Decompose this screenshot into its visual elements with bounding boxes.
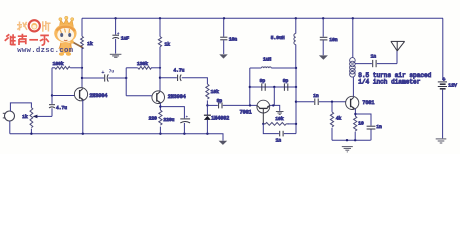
inductor L 8.5 turns tank coil xyxy=(352,18,354,57)
node rail diode xyxy=(206,133,208,135)
svg-text:1/4 inch diameter: 1/4 inch diameter xyxy=(358,79,421,86)
svg-text:5.9uH: 5.9uH xyxy=(271,35,285,41)
watermark mascot body xyxy=(60,43,72,54)
wire top supply rail xyxy=(82,17,443,19)
wire cap to mic resistor with arrow xyxy=(37,115,52,117)
wire mic top to 1k xyxy=(10,103,31,111)
battery B1 12V xyxy=(438,82,447,89)
resistor R 1k Q1 collector load xyxy=(81,18,83,36)
node Q2 collector output tap xyxy=(159,77,161,79)
wire Q1 emitter xyxy=(82,100,84,134)
svg-text:220: 220 xyxy=(149,116,158,122)
svg-text:10n: 10n xyxy=(329,37,338,43)
node Q1 base xyxy=(51,94,53,96)
watermark ring seal xyxy=(29,20,40,31)
watermark mascot crown xyxy=(60,19,74,27)
resistor R 1k Q2 collector load xyxy=(159,18,161,36)
wire Q2 collector column xyxy=(159,47,161,92)
capacitor C 4.7u mic coupling xyxy=(51,96,53,104)
svg-text:+: + xyxy=(186,116,189,120)
svg-text:+: + xyxy=(117,32,120,37)
node rail 220 xyxy=(159,133,161,135)
node Q4 base 4k xyxy=(331,101,333,103)
capacitor C 1n emitter bypass xyxy=(355,114,371,126)
wire Q4 collector up to coil xyxy=(352,77,354,97)
node rail 1k xyxy=(30,133,32,135)
node right rail ground xyxy=(346,139,348,141)
junction top rail at 5.9uH xyxy=(295,17,297,19)
node interstage split xyxy=(125,77,127,79)
node 9p midpoint xyxy=(273,86,275,88)
ground under 1uF xyxy=(110,54,122,57)
node 10k2 right xyxy=(295,123,297,125)
watermark logo dzsc xyxy=(5,16,83,56)
transistor Q4 7601 buffer xyxy=(346,96,359,109)
svg-text:220u: 220u xyxy=(163,117,174,123)
svg-text:2N3904: 2N3904 xyxy=(168,94,186,100)
svg-text:9p: 9p xyxy=(260,78,266,84)
wire battery negative down xyxy=(442,90,444,139)
ground under 10n xyxy=(219,54,227,58)
node Q2 collector 130k xyxy=(159,67,161,69)
svg-text:7601: 7601 xyxy=(362,100,374,106)
junction top rail at 10n second xyxy=(322,17,324,19)
watermark mascot feet xyxy=(59,52,64,56)
capacitor C 1uF bypass xyxy=(115,18,117,34)
wire 9p midpoint down xyxy=(273,87,275,105)
node Q1 collector / 100k feedback xyxy=(81,67,83,69)
node Q1 collector coupling tap xyxy=(81,77,83,79)
wire split up to 130k and down to Q2 base xyxy=(125,68,127,96)
wire Q3 right lead to ground stub xyxy=(270,105,280,111)
wire mic bottom to ground rail xyxy=(9,121,11,134)
svg-text:1n: 1n xyxy=(371,53,377,59)
capacitor C 4.7u interstage xyxy=(82,77,104,79)
capacitor C 10n decoupling xyxy=(223,18,225,36)
watermark text weiku red xyxy=(5,34,49,45)
svg-text:1uH: 1uH xyxy=(263,57,272,63)
transistor Q1 2N3904 xyxy=(74,88,87,101)
svg-text:4.7u: 4.7u xyxy=(173,68,184,74)
node tank left 9p xyxy=(249,86,251,88)
node 9p midpoint tap xyxy=(272,104,274,106)
svg-text:100k: 100k xyxy=(53,61,64,67)
capacitor C 1n base return xyxy=(263,124,279,134)
wire oscillator collector column xyxy=(295,68,297,134)
watermark mascot head xyxy=(54,24,76,42)
resistor R 4k Q4 bias xyxy=(331,102,333,112)
wire Q2 emitter xyxy=(159,103,161,110)
wire 100k to base node xyxy=(51,68,53,96)
svg-text:12V: 12V xyxy=(448,83,457,89)
svg-text:1k: 1k xyxy=(87,41,93,47)
wire Q1 base xyxy=(52,95,75,97)
wire Q1 collector column xyxy=(81,47,83,88)
wire tank left branch xyxy=(249,68,251,105)
svg-text:7001: 7001 xyxy=(240,109,252,115)
svg-text:1N4002: 1N4002 xyxy=(211,115,229,121)
ground right rail xyxy=(342,147,353,152)
wire antenna feed xyxy=(396,51,398,64)
svg-text:10k: 10k xyxy=(275,116,284,122)
junction top rail at Q2 load xyxy=(159,17,161,19)
transistor Q2 2N3904 xyxy=(152,91,165,104)
node Q4 emitter xyxy=(354,113,356,115)
svg-text:7u: 7u xyxy=(109,70,115,75)
wire right edge supply drop to battery xyxy=(442,18,444,80)
ground Q3 emitter xyxy=(276,112,284,115)
svg-text:4.7u: 4.7u xyxy=(56,105,67,111)
node Q3 base left xyxy=(249,104,251,106)
node osc out xyxy=(295,101,297,103)
node Q3 base network xyxy=(262,123,264,125)
junction top rail at 1uF xyxy=(114,17,116,19)
svg-text:1n: 1n xyxy=(376,124,382,130)
node right rail 10 xyxy=(354,139,356,141)
svg-text:8p: 8p xyxy=(217,98,223,104)
ground rail end xyxy=(219,141,228,145)
ground battery xyxy=(436,139,447,143)
junction top rail at 10n xyxy=(223,17,225,19)
watermark mascot staff xyxy=(72,42,83,48)
svg-text:1n: 1n xyxy=(276,137,282,143)
node rail 220u xyxy=(183,133,185,135)
node 9p right xyxy=(295,86,297,88)
node rail Q1 emitter xyxy=(82,133,84,135)
watermark char zhao xyxy=(17,22,27,31)
watermark char pian xyxy=(43,21,51,32)
svg-text:9p: 9p xyxy=(283,78,289,84)
wire 9p row xyxy=(250,86,296,88)
junction top rail at tank coil xyxy=(352,17,354,19)
svg-text:10: 10 xyxy=(358,121,364,127)
svg-text:130k: 130k xyxy=(137,61,148,67)
svg-text:1k: 1k xyxy=(165,42,171,48)
node Q2 emitter xyxy=(159,105,161,107)
capacitor C 10n second decoupling xyxy=(322,18,324,36)
resistor R 10 emitter xyxy=(354,116,357,131)
capacitor C 220u emitter bypass xyxy=(160,107,184,119)
svg-text:10k: 10k xyxy=(211,89,220,95)
svg-text:1k: 1k xyxy=(22,114,28,120)
svg-text:www.dzsc.com: www.dzsc.com xyxy=(17,47,73,55)
wire Q4 emitter xyxy=(354,109,356,116)
node 1uH right xyxy=(295,67,297,69)
svg-text:10n: 10n xyxy=(229,36,238,42)
ground under 10n second xyxy=(319,55,328,59)
wire Q2 base xyxy=(126,95,152,97)
wire right ground rail xyxy=(332,139,371,141)
resistor R 10k oscillator injection xyxy=(206,84,209,99)
svg-text:1uF: 1uF xyxy=(121,35,130,41)
microphone MIC electret xyxy=(5,111,15,121)
diode D 1N4002 xyxy=(206,105,208,115)
antenna ANT xyxy=(391,41,405,51)
svg-text:+: + xyxy=(442,77,445,83)
svg-text:2N3904: 2N3904 xyxy=(89,93,107,99)
svg-text:4k: 4k xyxy=(336,116,342,122)
wire bottom ground rail xyxy=(10,134,223,141)
svg-text:1n: 1n xyxy=(313,93,319,99)
node 10k diode 8p xyxy=(206,104,208,106)
